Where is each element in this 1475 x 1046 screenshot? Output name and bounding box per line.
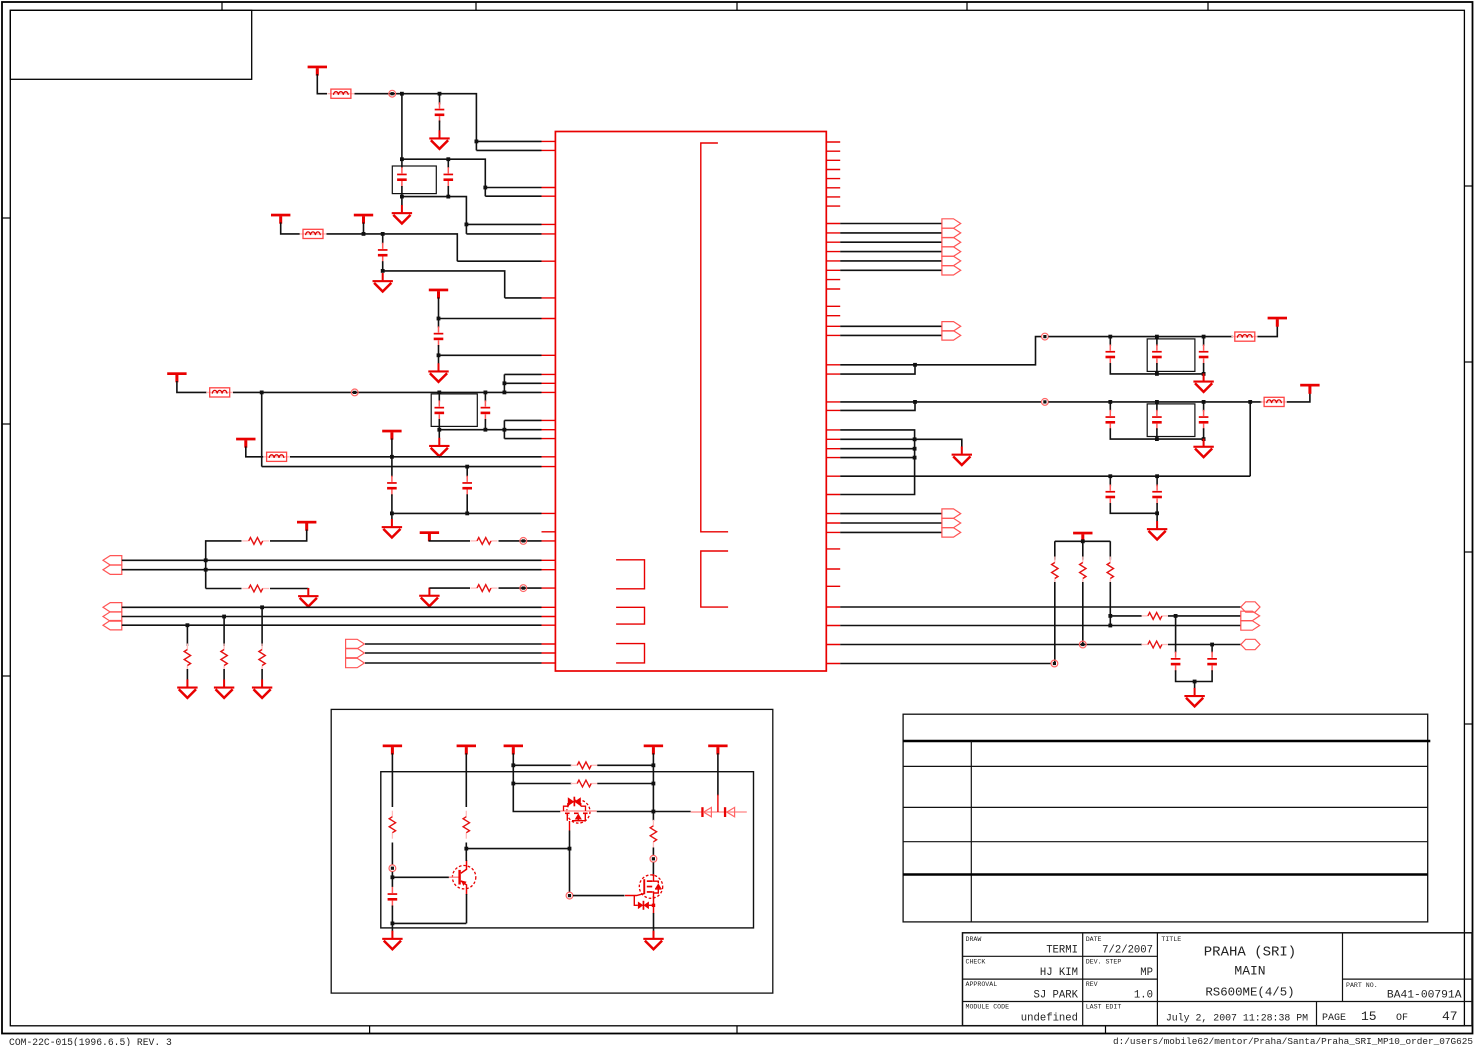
wire xyxy=(503,374,505,392)
svg-text:TERMI: TERMI xyxy=(1046,945,1078,957)
node marker xyxy=(1042,399,1049,406)
power symbol VDD12 xyxy=(1073,532,1092,542)
junction xyxy=(484,428,488,432)
svg-text:MODULE CODE: MODULE CODE xyxy=(966,1004,1010,1011)
svg-text:7/2/2007: 7/2/2007 xyxy=(1102,945,1153,957)
wire xyxy=(717,753,719,795)
ground xyxy=(382,519,402,538)
power symbol VDD1 xyxy=(308,66,327,76)
junction xyxy=(391,875,395,879)
wire xyxy=(513,764,571,766)
wire xyxy=(465,843,467,862)
connector arrow P21 xyxy=(942,509,961,518)
wire xyxy=(840,522,942,524)
node marker xyxy=(1042,333,1049,340)
svg-text:47: 47 xyxy=(1442,1009,1458,1024)
IC U1 internal partition line xyxy=(701,143,728,532)
node marker xyxy=(389,90,396,97)
notes table row line xyxy=(903,765,1428,767)
ground xyxy=(252,679,272,698)
wire xyxy=(439,420,504,438)
wire xyxy=(290,456,542,458)
wire xyxy=(402,159,485,196)
wire xyxy=(365,662,542,664)
junction xyxy=(913,400,917,404)
node marker xyxy=(520,538,527,545)
svg-text:LAST EDIT: LAST EDIT xyxy=(1086,1004,1122,1011)
junction xyxy=(1155,437,1159,441)
junction xyxy=(1155,511,1159,515)
wire xyxy=(504,419,541,421)
frame zone tick marks top xyxy=(222,2,1208,10)
wire xyxy=(504,438,541,440)
wire xyxy=(233,391,542,393)
wire xyxy=(840,438,914,440)
wire xyxy=(652,848,654,856)
junction xyxy=(437,428,441,432)
svg-text:TITLE: TITLE xyxy=(1161,936,1181,943)
wire xyxy=(223,617,225,647)
connector arrow P2 xyxy=(103,565,122,574)
connector arrow P5 xyxy=(103,621,122,630)
wire xyxy=(1110,503,1157,522)
wire xyxy=(840,401,1041,403)
wire xyxy=(597,783,653,785)
subcircuit outer box xyxy=(331,709,773,993)
wire xyxy=(840,475,1250,477)
connector arrow P23 xyxy=(942,528,961,537)
notes table heavy row line xyxy=(903,873,1428,875)
connector arrow P19 xyxy=(1241,621,1260,630)
wire xyxy=(438,297,440,318)
wire xyxy=(466,223,541,225)
filter box B2 xyxy=(431,394,477,427)
junction xyxy=(503,428,507,432)
capacitor C16 xyxy=(1106,485,1116,505)
junction xyxy=(381,269,385,273)
wire xyxy=(365,643,542,645)
wire xyxy=(840,325,942,327)
wire xyxy=(840,269,942,271)
connector port P20 xyxy=(1241,639,1260,649)
connector arrow P7 xyxy=(346,648,365,657)
junction xyxy=(465,512,469,516)
junction xyxy=(400,195,404,199)
resistor R12 xyxy=(1141,641,1168,648)
resistor R2 xyxy=(242,585,269,592)
wire xyxy=(438,392,440,401)
wire xyxy=(429,587,470,589)
connector arrow P3 xyxy=(103,603,122,612)
connector port P17 xyxy=(1241,602,1260,612)
ground xyxy=(419,588,439,607)
wire xyxy=(840,606,1241,608)
junction xyxy=(1248,400,1252,404)
junction xyxy=(1108,474,1112,478)
notes table heavy rule xyxy=(903,740,1430,742)
node marker xyxy=(389,865,396,872)
wire xyxy=(392,512,542,514)
ground xyxy=(373,273,393,292)
power symbol VDD5 xyxy=(167,372,186,382)
wire xyxy=(438,319,440,328)
resistor R8 xyxy=(1052,557,1058,585)
ground xyxy=(177,679,197,698)
wire xyxy=(401,186,403,197)
node marker xyxy=(650,855,657,862)
wire xyxy=(569,831,571,849)
svg-text:DEV. STEP: DEV. STEP xyxy=(1086,959,1122,966)
ground xyxy=(1193,439,1213,458)
wire xyxy=(392,876,449,878)
wire xyxy=(840,241,942,243)
wire xyxy=(652,753,654,820)
wire xyxy=(391,494,393,513)
wire xyxy=(438,419,440,430)
power symbol VDD15 xyxy=(504,745,523,755)
junction xyxy=(913,363,917,367)
power symbol VDD8 xyxy=(297,521,316,531)
notes table xyxy=(903,714,1428,922)
wire xyxy=(391,753,393,807)
capacitor C9 xyxy=(462,476,472,496)
wire xyxy=(327,234,458,261)
wire xyxy=(476,149,541,151)
wire xyxy=(653,913,655,932)
junction xyxy=(1202,400,1206,404)
svg-text:DATE: DATE xyxy=(1086,936,1102,943)
IC U1 right pin stubs xyxy=(826,142,840,664)
junction xyxy=(464,847,468,851)
wire xyxy=(401,94,403,160)
wire xyxy=(1110,615,1142,617)
wire xyxy=(401,197,403,206)
svg-text:HJ KIM: HJ KIM xyxy=(1040,967,1078,979)
wire xyxy=(122,606,542,608)
junction xyxy=(503,391,507,395)
wire xyxy=(261,669,263,680)
resistor R17 xyxy=(650,820,656,848)
connector arrow P12 xyxy=(942,247,961,256)
wire xyxy=(840,260,942,262)
wire xyxy=(466,467,468,477)
capacitor C11 xyxy=(1152,345,1162,365)
wire xyxy=(597,811,654,813)
capacitor C15 xyxy=(1199,410,1209,430)
title block outline xyxy=(963,933,1473,1026)
power symbol VDD6 xyxy=(236,438,255,448)
wire xyxy=(281,222,300,234)
wire xyxy=(1168,615,1241,617)
wire xyxy=(391,457,393,477)
wire xyxy=(383,271,505,298)
capacitor C10 xyxy=(1106,345,1116,365)
inductor L3 xyxy=(206,388,233,397)
junction xyxy=(390,455,394,459)
svg-text:1.0: 1.0 xyxy=(1134,989,1153,1001)
notes table row line xyxy=(903,841,1428,843)
junction xyxy=(437,353,441,357)
wire xyxy=(457,260,541,262)
wire xyxy=(270,530,307,541)
wire xyxy=(122,624,542,626)
svg-text:July 2, 2007 11:28:38 PM: July 2, 2007 11:28:38 PM xyxy=(1166,1013,1308,1024)
capacitor C19 xyxy=(1207,652,1217,672)
connector arrow P13 xyxy=(942,256,961,265)
wire xyxy=(1055,540,1111,559)
wire xyxy=(573,895,625,897)
capacitor C1 xyxy=(435,102,445,122)
wire xyxy=(840,232,942,234)
power symbol VDD9 xyxy=(420,531,439,541)
wire xyxy=(504,373,541,375)
connector arrow P8 xyxy=(346,658,365,667)
transistor Q1 xyxy=(449,860,476,895)
junction xyxy=(1155,335,1159,339)
junction xyxy=(446,157,450,161)
capacitor C4 xyxy=(378,243,388,263)
wire xyxy=(1110,363,1203,374)
filter box B4 xyxy=(1147,404,1195,437)
wire xyxy=(186,669,188,680)
power symbol VDD17 xyxy=(708,745,727,755)
wire xyxy=(484,419,486,430)
capacitor C17 xyxy=(1152,485,1162,505)
wire xyxy=(466,894,468,923)
IC U1 internal bracket left 1 xyxy=(616,560,644,589)
wire xyxy=(476,140,541,142)
capacitor C5 xyxy=(434,326,444,346)
inductor L6 xyxy=(1261,397,1288,406)
diode D1 xyxy=(701,807,711,817)
wire xyxy=(513,753,560,811)
wire xyxy=(485,195,541,197)
wire xyxy=(365,652,542,654)
IC U1 internal bracket left 3 xyxy=(616,644,644,663)
svg-text:d:/users/mobile62/mentor/Praha: d:/users/mobile62/mentor/Praha/Santa/Pra… xyxy=(1113,1036,1473,1046)
junction xyxy=(652,782,656,786)
wire xyxy=(1258,325,1278,337)
capacitor C3 xyxy=(444,167,454,187)
frame zone tick marks bottom xyxy=(370,1026,1106,1034)
junction xyxy=(465,223,469,227)
junction xyxy=(390,512,394,516)
power symbol VDD4 xyxy=(429,289,448,299)
node marker xyxy=(1051,660,1058,667)
svg-text:MAIN: MAIN xyxy=(1234,964,1265,979)
resistor R9 xyxy=(1080,557,1086,585)
junction xyxy=(1202,372,1206,376)
connector arrow P18 xyxy=(1241,611,1260,620)
wire xyxy=(1176,670,1213,681)
wire xyxy=(915,439,962,447)
wire xyxy=(186,625,188,646)
wire xyxy=(246,446,264,456)
svg-text:REV: REV xyxy=(1086,981,1098,988)
connector arrow P22 xyxy=(942,518,961,527)
wire xyxy=(261,607,263,646)
wire xyxy=(504,382,541,384)
wire xyxy=(439,354,542,356)
node marker xyxy=(1079,641,1086,648)
wire xyxy=(466,233,541,235)
wire xyxy=(840,448,914,450)
junction xyxy=(483,186,487,190)
junction xyxy=(437,391,441,395)
wire xyxy=(840,402,915,411)
wire xyxy=(382,234,384,244)
wire xyxy=(1194,682,1196,689)
capacitor C7 xyxy=(481,400,491,420)
ground xyxy=(1184,688,1204,707)
capacitor C8 xyxy=(387,476,397,496)
wire xyxy=(1287,392,1310,402)
IC U1 internal bracket right xyxy=(701,551,728,607)
power symbol VDD13 xyxy=(383,745,402,755)
wire xyxy=(122,616,542,618)
wire xyxy=(391,438,393,456)
connector arrow P16 xyxy=(942,331,961,340)
svg-text:OF: OF xyxy=(1396,1013,1408,1024)
wire xyxy=(391,906,393,924)
wire xyxy=(840,531,942,533)
wire xyxy=(391,513,393,519)
junction xyxy=(186,623,190,627)
junction xyxy=(222,615,226,619)
wire xyxy=(122,569,542,571)
diode D2 xyxy=(724,807,735,817)
junction xyxy=(1155,474,1159,478)
power symbol VDD10 xyxy=(1268,317,1287,327)
resistor R3 xyxy=(471,538,498,545)
connector arrow P15 xyxy=(942,322,961,331)
power symbol VDD11 xyxy=(1300,384,1319,394)
wire xyxy=(691,811,747,813)
ground xyxy=(643,931,663,950)
wire xyxy=(1110,337,1203,346)
wire xyxy=(504,429,541,431)
connector arrow P14 xyxy=(942,266,961,275)
wire xyxy=(840,644,1142,646)
svg-text:COM-22C-015(1996.6.5) REV. 3: COM-22C-015(1996.6.5) REV. 3 xyxy=(9,1037,172,1046)
wire xyxy=(499,540,542,542)
inductor L1 xyxy=(327,89,354,98)
resistor R1 xyxy=(242,538,269,545)
wire xyxy=(223,669,225,680)
wire xyxy=(840,513,942,515)
wire xyxy=(1175,616,1177,653)
junction xyxy=(511,763,515,767)
wire xyxy=(499,587,542,589)
wire xyxy=(429,539,470,542)
junction xyxy=(446,195,450,199)
power symbol VDD3 xyxy=(354,214,373,224)
junction xyxy=(652,763,656,767)
wire xyxy=(317,74,327,94)
capacitor C14 xyxy=(1152,410,1162,430)
svg-text:PART NO.: PART NO. xyxy=(1346,982,1378,989)
wire xyxy=(447,159,449,168)
wire xyxy=(840,223,942,225)
wire xyxy=(840,430,914,495)
resistor R14 xyxy=(463,811,469,839)
title block grid xyxy=(963,933,1473,1026)
junction xyxy=(1202,437,1206,441)
wire xyxy=(447,186,449,197)
junction xyxy=(204,558,208,562)
svg-text:DRAW: DRAW xyxy=(966,936,982,943)
wire xyxy=(438,345,440,355)
notes table row line xyxy=(903,806,1428,808)
power symbol VDD16 xyxy=(644,745,663,755)
ground xyxy=(214,679,234,698)
resistor R6 xyxy=(221,644,227,672)
wire xyxy=(840,625,1241,627)
power symbol VDD14 xyxy=(457,745,476,755)
junction xyxy=(913,437,917,441)
junction xyxy=(511,782,515,786)
junction xyxy=(1174,614,1178,618)
junction xyxy=(400,157,404,161)
wire xyxy=(391,872,393,887)
capacitor C6 xyxy=(435,400,445,420)
wire xyxy=(1109,582,1111,626)
junction xyxy=(503,381,507,385)
junction xyxy=(1155,372,1159,376)
junction xyxy=(381,232,385,236)
wire xyxy=(1110,476,1157,486)
junction xyxy=(652,810,656,814)
wire xyxy=(439,94,441,105)
junction xyxy=(1108,335,1112,339)
svg-text:SJ PARK: SJ PARK xyxy=(1033,989,1078,1001)
wire xyxy=(206,541,242,589)
wire xyxy=(652,862,654,876)
svg-text:PRAHA (SRI): PRAHA (SRI) xyxy=(1204,945,1296,961)
wire xyxy=(840,334,942,336)
resistor R11 xyxy=(1141,613,1168,620)
resistor R5 xyxy=(259,644,265,672)
wire xyxy=(355,94,477,151)
junction xyxy=(1081,539,1085,543)
junction xyxy=(400,92,404,96)
resistor R10 xyxy=(1107,557,1113,585)
wire xyxy=(438,430,440,439)
wire xyxy=(466,494,468,513)
junction xyxy=(391,922,395,926)
junction xyxy=(913,456,917,460)
connector arrow P10 xyxy=(942,228,961,237)
junction xyxy=(484,391,488,395)
junction xyxy=(362,232,366,236)
capacitor C12 xyxy=(1199,345,1209,365)
resistor R16 xyxy=(571,780,598,787)
svg-text:CHECK: CHECK xyxy=(966,959,986,966)
ground xyxy=(1193,373,1213,392)
frame zone tick marks left xyxy=(2,218,10,676)
capacitor C13 xyxy=(1106,410,1116,430)
ground xyxy=(1147,521,1167,540)
wire xyxy=(513,783,571,785)
wire xyxy=(597,764,653,766)
power symbol VDD7 xyxy=(382,430,401,440)
wire xyxy=(1048,336,1233,338)
wire xyxy=(122,559,542,561)
transistor Q2 xyxy=(560,797,597,831)
wire xyxy=(569,849,571,892)
wire xyxy=(401,159,403,168)
svg-text:15: 15 xyxy=(1361,1009,1377,1024)
